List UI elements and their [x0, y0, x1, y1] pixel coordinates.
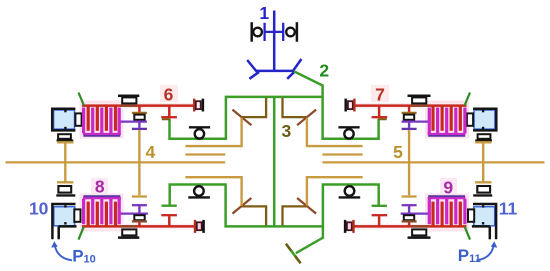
motor 6 winding [83, 106, 121, 136]
motor 8 housing [52, 204, 76, 239]
svg-text:1: 1 [259, 3, 269, 23]
gear set top-left [120, 106, 147, 129]
motor 9 brush [468, 209, 474, 221]
clutch coupling shaft 7 [346, 99, 355, 112]
gear set bottom-left [120, 197, 148, 227]
pivot arrow P10 [51, 241, 72, 260]
side gear hub right (tan) [307, 118, 363, 146]
green gear cap right [372, 205, 387, 207]
green gear cap left [162, 204, 177, 206]
shaft 3 (green center) [273, 97, 276, 227]
motor 8 lever [79, 227, 84, 240]
axle fork left [185, 153, 225, 155]
frame bearing shaft 9 [408, 229, 431, 237]
carrier 2 top frame [170, 97, 379, 139]
svg-text:2: 2 [319, 61, 329, 81]
countershaft right [408, 130, 410, 195]
pinion on shaft 9 [372, 215, 388, 226]
svg-text:9: 9 [443, 178, 453, 198]
gear set top-right [402, 106, 429, 129]
wheel hub bearing upper-right [475, 134, 492, 140]
pinion on shaft 7 [372, 106, 388, 120]
motor shaft 6 (red) [82, 104, 194, 107]
clutch coupling shaft 6 [194, 99, 203, 112]
diff pinion bottom-right [283, 206, 307, 225]
svg-text:6: 6 [164, 85, 174, 105]
motor 7 brush [467, 113, 473, 125]
diff pinion bottom-left [242, 206, 266, 225]
wheel upright right [475, 142, 491, 182]
bearing on shaft 1 [252, 22, 297, 42]
pinion on shaft 6 [161, 106, 177, 120]
svg-text:11: 11 [499, 199, 518, 219]
carrier bearing top-left [189, 127, 210, 138]
svg-text:10: 10 [29, 198, 49, 218]
motor 8 brush [74, 209, 80, 221]
motor 7 housing [473, 109, 496, 131]
motor 8 rotor [54, 207, 75, 226]
frame bearing shaft 6 [118, 96, 139, 104]
mesh diagonal top-left [232, 110, 251, 126]
frame bearing shaft 7 [408, 96, 431, 104]
svg-text:7: 7 [375, 85, 385, 105]
carrier 2 link to bevel [294, 71, 323, 97]
motor 7 lever [465, 93, 470, 106]
svg-text:8: 8 [95, 177, 105, 197]
wheel hub bearing upper-left [57, 134, 74, 140]
carrier bearing bottom-left [188, 186, 210, 197]
carrier bearing top-right [338, 127, 359, 138]
shaft sleeve left-bottom [120, 225, 137, 228]
motor 9 housing [472, 204, 496, 239]
shaft sleeve left-top [120, 104, 137, 107]
pivot arrow P11 [477, 241, 498, 260]
wheel hub bearing lower-right [473, 186, 492, 195]
bevel pinion on shaft 1 [247, 59, 301, 79]
svg-text:3: 3 [282, 121, 292, 141]
shaft sleeve right-top [412, 104, 429, 107]
pinion on shaft 8 [161, 215, 177, 226]
frame bearing shaft 8 [118, 229, 139, 237]
side gear hub left (tan) [185, 118, 241, 146]
motor 6 brush [75, 113, 81, 125]
side gear hub right lower [307, 177, 363, 206]
motor 6 rotor [54, 110, 75, 129]
motor 7 rotor [474, 110, 495, 129]
clutch coupling shaft 9 [345, 220, 353, 233]
mesh diagonal top-right [297, 110, 316, 126]
motor 6 housing [52, 109, 75, 131]
countershaft left [138, 130, 140, 195]
axle fork right [322, 153, 362, 155]
motor 8 winding [83, 196, 121, 226]
motor shaft 9 (red) [354, 225, 466, 228]
shaft sleeve right-bottom [412, 225, 429, 228]
left axle 4 [6, 161, 226, 163]
carrier bearing bottom-right [339, 186, 361, 197]
wheel hub bearing lower-left [56, 186, 75, 195]
clutch coupling shaft 8 [195, 220, 204, 233]
halo tints [80, 85, 470, 232]
motor shaft 8 (red) [82, 225, 195, 228]
gear set bottom-right [401, 197, 429, 227]
motor 9 winding [428, 196, 466, 226]
carrier bottom frame [170, 185, 379, 227]
diff pinion top-left [242, 98, 266, 117]
shaft 1 [273, 11, 276, 72]
mesh diagonal bottom-right [297, 198, 316, 214]
right axle 5 [322, 161, 544, 163]
motor shaft 7 (red) [354, 104, 466, 107]
motor 9 rotor [474, 207, 495, 226]
bevel hatch marks bottom [286, 244, 291, 251]
motor 9 lever [465, 227, 470, 240]
diff pinion top-right [283, 98, 307, 117]
side gear hub left lower [185, 177, 241, 206]
green output link down [296, 226, 323, 253]
wheel upright left [57, 142, 73, 182]
green bevel gear bottom [286, 244, 300, 262]
svg-text:4: 4 [146, 142, 156, 162]
motor 6 lever [79, 93, 84, 106]
svg-text:5: 5 [393, 142, 403, 162]
motor 7 winding [428, 106, 466, 136]
mesh diagonal bottom-left [232, 198, 251, 214]
